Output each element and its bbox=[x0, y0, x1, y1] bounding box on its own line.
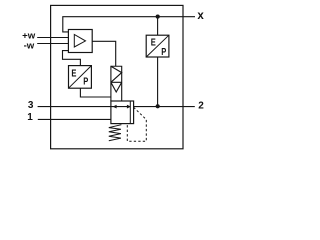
svg-text:2: 2 bbox=[198, 100, 204, 111]
svg-text:E: E bbox=[151, 36, 156, 47]
svg-text:3: 3 bbox=[28, 100, 34, 111]
svg-text:-w: -w bbox=[24, 41, 35, 52]
svg-text:E: E bbox=[71, 67, 76, 78]
svg-text:1: 1 bbox=[27, 112, 33, 123]
svg-text:P: P bbox=[161, 46, 166, 57]
svg-text:P: P bbox=[83, 76, 88, 87]
svg-text:x: x bbox=[197, 10, 204, 22]
